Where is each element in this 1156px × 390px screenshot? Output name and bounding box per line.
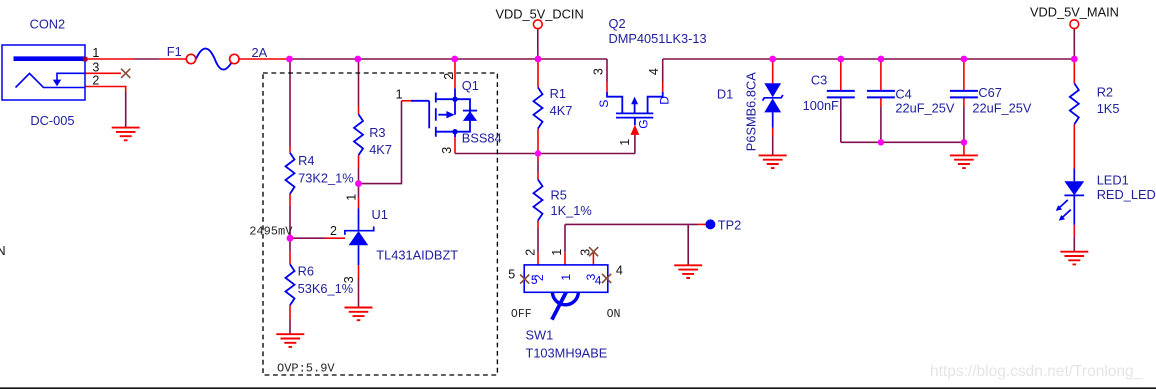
svg-text:1: 1 [92,46,99,60]
svg-text:BSS84: BSS84 [462,131,502,146]
svg-text:R2: R2 [1097,85,1113,100]
svg-text:4: 4 [616,264,623,278]
svg-text:D: D [658,96,672,105]
svg-text:R1: R1 [550,86,566,101]
svg-text:https://blog.csdn.net/Tronlong: https://blog.csdn.net/Tronlong_ [930,363,1143,380]
svg-text:2: 2 [330,224,337,238]
svg-text:1: 1 [618,139,632,146]
svg-text:100nF: 100nF [803,98,839,113]
svg-text:2495mV: 2495mV [249,224,293,238]
svg-text:G: G [637,119,651,128]
svg-text:DC-005: DC-005 [30,113,74,128]
svg-text:4: 4 [647,68,661,75]
svg-text:ON: ON [607,308,621,321]
svg-text:C4: C4 [895,87,911,102]
svg-text:CON2: CON2 [30,17,66,32]
svg-text:3: 3 [342,276,356,283]
svg-text:P6SMB6.8CA: P6SMB6.8CA [743,72,758,151]
svg-text:OFF: OFF [511,308,532,321]
svg-text:Q2: Q2 [609,16,626,31]
svg-text:T103MH9ABE: T103MH9ABE [526,346,608,361]
svg-text:TL431AIDBZT: TL431AIDBZT [376,248,458,263]
svg-text:3: 3 [578,249,592,256]
svg-text:2A: 2A [252,45,268,60]
svg-text:3: 3 [92,61,99,75]
svg-text:1: 1 [345,194,359,201]
svg-text:D1: D1 [717,87,733,102]
svg-text:3: 3 [591,68,605,75]
svg-text:U1: U1 [372,207,388,222]
svg-text:1: 1 [550,249,564,256]
svg-text:4: 4 [595,274,602,288]
svg-text:2: 2 [92,74,99,88]
svg-text:2: 2 [442,73,456,80]
svg-text:1: 1 [559,274,573,281]
svg-text:VDD_5V_MAIN: VDD_5V_MAIN [1030,4,1119,19]
svg-text:4K7: 4K7 [369,142,392,157]
svg-text:R3: R3 [369,125,385,140]
svg-text:RED_LED: RED_LED [1097,187,1156,202]
svg-text:SW1: SW1 [526,327,554,342]
svg-text:R4: R4 [298,153,314,168]
svg-text:5: 5 [531,273,538,287]
svg-text:N: N [0,243,6,258]
svg-text:2: 2 [523,249,537,256]
svg-text:1K5: 1K5 [1097,101,1120,116]
svg-text:73K2_1%: 73K2_1% [298,171,354,186]
svg-text:1: 1 [396,88,403,102]
svg-text:F1: F1 [167,44,182,59]
svg-text:DMP4051LK3-13: DMP4051LK3-13 [609,31,707,46]
svg-text:5: 5 [508,268,515,282]
svg-text:22uF_25V: 22uF_25V [895,100,955,115]
svg-text:Q1: Q1 [462,78,479,93]
svg-text:LED1: LED1 [1097,172,1129,187]
svg-text:3: 3 [440,147,454,154]
svg-text:OVP:5.9V: OVP:5.9V [277,361,335,375]
svg-text:TP2: TP2 [718,218,741,233]
svg-text:4K7: 4K7 [550,103,573,118]
svg-text:C67: C67 [978,85,1001,100]
svg-text:S: S [597,100,611,108]
svg-text:R6: R6 [298,264,314,279]
svg-text:VDD_5V_DCIN: VDD_5V_DCIN [496,6,584,21]
svg-text:1K_1%: 1K_1% [551,203,592,218]
svg-text:22uF_25V: 22uF_25V [972,100,1032,115]
svg-text:C3: C3 [811,73,827,88]
svg-text:R5: R5 [551,188,567,203]
